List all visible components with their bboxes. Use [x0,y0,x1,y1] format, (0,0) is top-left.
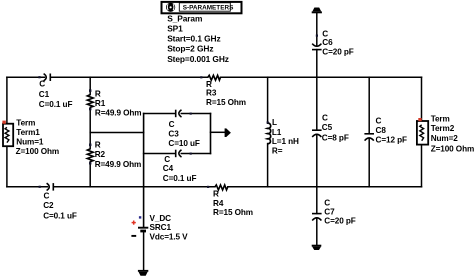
svg-text:C2: C2 [43,201,54,210]
svg-text:C: C [322,114,328,123]
svg-text:C5: C5 [322,123,333,132]
wire bottom rail left segment [7,186,48,188]
svg-text:Vdc=1.5 V: Vdc=1.5 V [150,232,189,241]
wire C5 bottom lead [316,135,318,187]
svg-text:C: C [44,192,50,201]
svg-text:R1: R1 [95,99,106,108]
wire top rail left segment [7,76,45,78]
wire C4 branch left lead [144,153,175,155]
svg-text:S_Param: S_Param [167,13,202,23]
svg-text:R: R [95,141,101,150]
wire L1 top lead [267,77,269,123]
capacitor C6 [312,44,322,50]
svg-text:C8: C8 [376,126,387,135]
svg-text:C: C [164,155,170,164]
wire bottom rail right segment [228,186,422,188]
svg-text:Term2: Term2 [431,124,455,133]
svg-text:Term1: Term1 [16,128,40,137]
svg-text:C: C [39,79,45,88]
svg-text:Term: Term [431,115,450,124]
wire left vertical [6,77,8,187]
ground below SRC1 [138,270,148,276]
plus sign SRC1 [132,221,136,225]
wire mid rail node to block [90,132,143,134]
wire C7 top lead [316,187,318,214]
svg-text:C=12 pF: C=12 pF [376,135,407,144]
capacitor C4 [176,150,182,158]
wire C5 top lead [316,77,318,130]
svg-text:C=0.1 uF: C=0.1 uF [39,100,73,109]
wire R1 top lead [89,77,91,94]
svg-text:R2: R2 [95,150,106,159]
svg-text:C7: C7 [324,207,335,216]
capacitor C8 [364,134,374,141]
pin tick C4 [190,153,192,155]
svg-text:C4: C4 [163,164,174,173]
wire R1-R2 middle lead [89,107,91,148]
svg-text:R=: R= [272,147,283,156]
svg-text:L=1 nH: L=1 nH [272,137,299,146]
dc source SRC1 [138,228,148,231]
svg-text:C: C [322,29,328,38]
svg-text:R: R [213,190,219,199]
resistor R1 [87,89,93,110]
wire bottom rail middle segment [54,186,215,188]
svg-text:Term: Term [16,118,35,127]
wire C3 branch left lead [144,113,175,115]
svg-text:C: C [169,120,175,129]
svg-text:C1: C1 [39,90,50,99]
capacitor C2 [47,183,54,191]
svg-text:R=49.9 Ohm: R=49.9 Ohm [95,160,142,169]
svg-text:Stop=2 GHz: Stop=2 GHz [167,44,213,54]
ground below C7 [312,245,322,250]
wire C6 top lead from ground [316,13,318,45]
wire L1 bottom lead [267,144,269,187]
wire output stub [211,131,225,133]
pin tick C3 [190,113,192,115]
svg-text:R4: R4 [213,199,224,208]
svg-text:C=8 pF: C=8 pF [322,133,349,142]
port Term1 [3,124,13,147]
resistor R3 [208,75,221,80]
capacitor C7 [312,214,322,221]
svg-text:R3: R3 [206,89,217,98]
svg-text:C=10 uF: C=10 uF [168,139,199,148]
pin tick C2 [39,186,41,188]
wire R2 bottom lead [89,162,91,187]
pin tick R3 [200,76,202,78]
svg-text:SP1: SP1 [167,24,183,34]
svg-text:L1: L1 [272,128,282,137]
svg-text:C6: C6 [322,38,333,47]
svg-text:SRC1: SRC1 [150,223,172,232]
wire C8 top lead [368,77,370,133]
svg-text:R: R [95,90,101,99]
wire C6 bottom lead [316,50,318,78]
pin tick L1 [267,121,269,123]
capacitor C1 [44,74,51,82]
svg-text:C=20 pF: C=20 pF [322,48,353,57]
capacitor C3 [176,110,182,118]
svg-text:C: C [376,116,382,125]
inductor L1 [267,123,270,144]
pin tick C1 [38,76,40,78]
port Term2 [417,121,428,145]
wire C3 branch right lead [181,113,210,115]
wire C8 bottom lead [368,138,370,187]
svg-text:C=20 pF: C=20 pF [324,217,355,226]
wire top rail middle segment [51,76,208,78]
resistor R2 [87,144,93,165]
svg-text:R=49.9 Ohm: R=49.9 Ohm [95,109,142,118]
pin tick R4 [207,186,209,188]
svg-text:R=15 Ohm: R=15 Ohm [206,98,246,107]
wire top rail right segment [221,76,422,78]
svg-text:C3: C3 [168,129,179,138]
svg-text:S-PARAMETERS: S-PARAMETERS [183,5,234,12]
svg-text:Num=2: Num=2 [431,134,459,143]
svg-text:Z=100 Ohm: Z=100 Ohm [431,144,474,153]
pin marker SRC1 [139,216,141,218]
svg-text:V_DC: V_DC [150,214,172,223]
svg-text:C=0.1 uF: C=0.1 uF [43,211,77,220]
capacitor C5 [312,130,322,137]
wire C7 bottom lead to ground [316,218,318,245]
resistor R4 [215,185,228,190]
svg-text:Step=0.001 GHz: Step=0.001 GHz [167,54,229,64]
svg-text:Num=1: Num=1 [16,137,44,146]
pin marker Term2 [418,118,421,121]
pin marker Term1 [2,121,5,124]
wire SRC1 bottom lead to ground [143,232,145,271]
output arrow node [225,128,231,137]
wire right vertical [421,77,423,187]
simulation controller box [162,2,242,13]
svg-text:R=15 Ohm: R=15 Ohm [213,208,253,217]
wire block left vertical [143,114,145,228]
minus sign SRC1 [131,235,136,237]
wire block right vertical [210,114,212,154]
svg-text:L: L [272,118,277,127]
pin tick C6 [316,35,318,37]
svg-text:C=0.1 uF: C=0.1 uF [163,174,197,183]
svg-text:Start=0.1 GHz: Start=0.1 GHz [167,34,220,44]
svg-text:Z=100 Ohm: Z=100 Ohm [16,147,59,156]
wire C4 branch right lead [181,153,210,155]
ground above C6 [312,8,322,14]
svg-text:C: C [324,198,330,207]
